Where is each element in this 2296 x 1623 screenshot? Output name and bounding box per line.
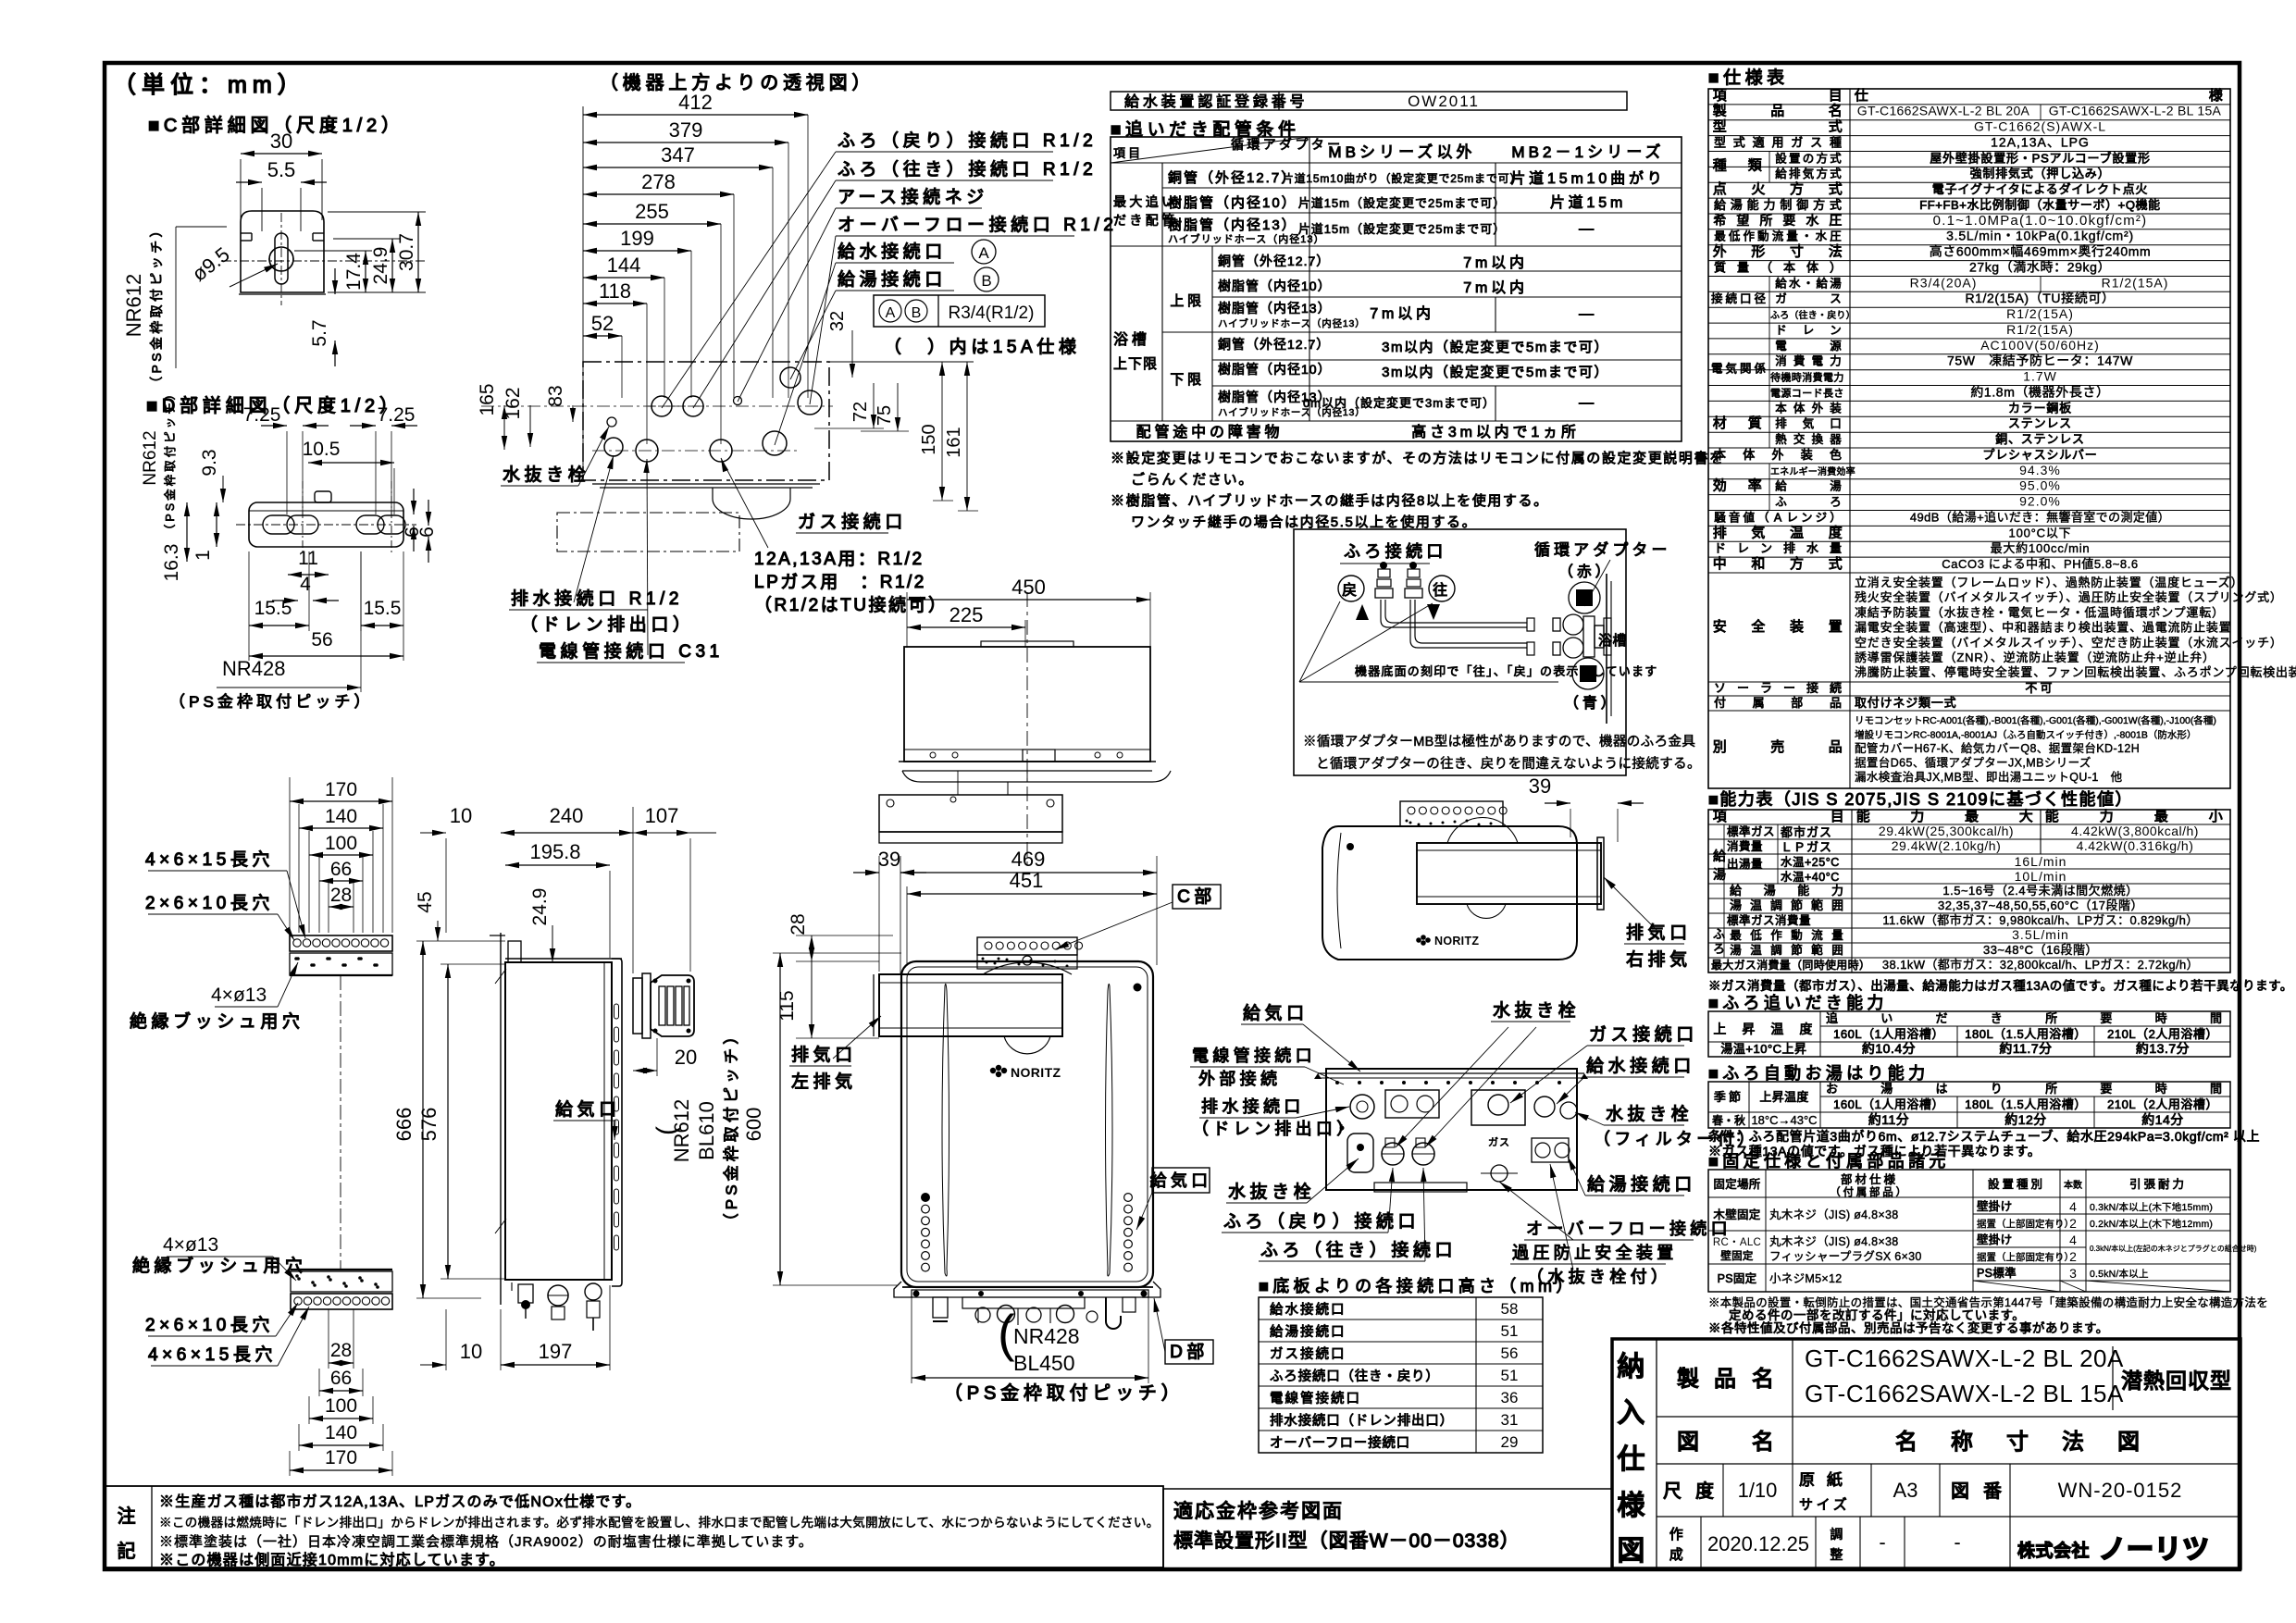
svg-text:機器底面の刻印で「往」、「戻」の表示をしています: 機器底面の刻印で「往」、「戻」の表示をしています [1355, 664, 1657, 678]
svg-text:形: 形 [1751, 244, 1769, 260]
front-top-view dims 450 225 [907, 576, 1150, 648]
centerline vertical [1026, 592, 1028, 865]
svg-text:売: 売 [1770, 739, 1788, 755]
circ-box bath label [1598, 633, 1627, 649]
svg-text:■仕様表: ■仕様表 [1708, 68, 1789, 88]
upper plate label 4xdia13 [130, 962, 304, 1032]
svg-text:7m以内: 7m以内 [1370, 305, 1434, 322]
svg-text:12A,13A、LPG: 12A,13A、LPG [1991, 135, 2090, 150]
svg-text:ふろ（戻り）接続口 R1/2: ふろ（戻り）接続口 R1/2 [838, 130, 1097, 151]
svg-text:ガス接続口: ガス接続口 [798, 512, 907, 532]
svg-text:量: 量 [1737, 261, 1752, 275]
svg-text:式: 式 [1829, 181, 1846, 197]
C-detail dim 17.4 [343, 251, 368, 292]
svg-text:107: 107 [645, 804, 679, 827]
svg-text:丸木ネジ（JIS) ø4.8×38: 丸木ネジ（JIS) ø4.8×38 [1769, 1235, 1899, 1248]
svg-text:接: 接 [1806, 681, 1821, 695]
svg-text:7m以内: 7m以内 [1463, 254, 1528, 271]
svg-text:電源コード長さ: 電源コード長さ [1770, 386, 1844, 399]
svg-text:湯: 湯 [1830, 277, 1844, 290]
svg-text:56: 56 [311, 629, 332, 650]
circ-box flow arrows [1356, 604, 1440, 620]
svg-text:付: 付 [1714, 696, 1729, 710]
svg-text:名: 名 [1752, 1367, 1780, 1392]
top-view conduit label [537, 459, 724, 663]
svg-text:排: 排 [1713, 525, 1731, 540]
svg-text:時: 時 [2155, 1082, 2170, 1096]
svg-text:給: 給 [1775, 480, 1790, 493]
svg-text:347: 347 [661, 143, 695, 167]
svg-text:部材仕様: 部材仕様 [1841, 1172, 1898, 1186]
svg-text:1/10: 1/10 [1738, 1479, 1778, 1502]
svg-text:水抜き栓: 水抜き栓 [503, 465, 590, 485]
svg-text:ふろ接続口: ふろ接続口 [1344, 542, 1447, 561]
svg-text:調: 調 [1770, 898, 1785, 912]
svg-text:型: 型 [1713, 119, 1731, 135]
reheat capability title [1708, 994, 1888, 1012]
front-view vent dots [922, 1194, 1133, 1271]
svg-text:小: 小 [2209, 809, 2227, 824]
svg-text:※この機器は側面近接10mmに対応しています。: ※この機器は側面近接10mmに対応しています。 [159, 1552, 505, 1568]
svg-text:18°C→43°C: 18°C→43°C [1751, 1113, 1817, 1127]
svg-text:設: 設 [1775, 151, 1790, 165]
svg-text:火: 火 [1751, 181, 1769, 197]
svg-text:置: 置 [1829, 619, 1846, 635]
svg-text:15.5: 15.5 [364, 598, 402, 619]
svg-text:※樹脂管、ハイブリッドホースの継手は内径8以上を使用する。: ※樹脂管、ハイブリッドホースの継手は内径8以上を使用する。 [1111, 492, 1549, 509]
svg-text:片道15m（設定変更で25mまで可）: 片道15m（設定変更で25mまで可） [1298, 196, 1507, 210]
svg-text:時: 時 [2155, 1011, 2170, 1025]
svg-text:樹脂管（内径10）: 樹脂管（内径10） [1168, 195, 1297, 211]
svg-text:樹脂管（内径10）: 樹脂管（内径10） [1218, 279, 1332, 293]
svg-text:給水接続口: 給水接続口 [1270, 1302, 1347, 1318]
svg-text:電子イグナイタによるダイレクト点火: 電子イグナイタによるダイレクト点火 [1932, 182, 2148, 196]
svg-text:力: 力 [1831, 884, 1846, 898]
svg-text:■底板よりの各接続口高さ（mm）: ■底板よりの各接続口高さ（mm） [1259, 1277, 1577, 1295]
svg-text:約11.7分: 約11.7分 [1999, 1041, 2052, 1056]
svg-text:52: 52 [591, 312, 614, 335]
svg-text:凍結予防装置（水抜き栓・電気ヒータ・低温時循環ポンプ運転）: 凍結予防装置（水抜き栓・電気ヒータ・低温時循環ポンプ運転） [1855, 605, 2225, 619]
svg-text:ス: ス [1810, 136, 1825, 150]
svg-text:2: 2 [2069, 1216, 2077, 1231]
side-view bottom fittings [505, 1280, 612, 1331]
D-detail dim 15.5 right [361, 598, 403, 628]
bottom-view fittings [1340, 1090, 1578, 1182]
svg-text:器: 器 [1830, 433, 1844, 446]
svg-text:方: 方 [1790, 181, 1807, 197]
svg-text:※この機器は燃焼時に「ドレン排出口」からドレンが排出されます: ※この機器は燃焼時に「ドレン排出口」からドレンが排出されます。必ず排水配管を設置… [159, 1515, 1160, 1530]
svg-text:量: 量 [1786, 230, 1801, 243]
svg-text:低: 低 [1729, 230, 1744, 243]
svg-text:体: 体 [1806, 261, 1821, 275]
svg-text:約1.8m（機器外長さ）: 約1.8m（機器外長さ） [1970, 384, 2109, 399]
reheating piping notes [1111, 451, 1725, 530]
svg-text:58: 58 [1501, 1300, 1519, 1318]
svg-text:2020.12.25: 2020.12.25 [1707, 1532, 1809, 1555]
top-view leader labels [662, 130, 1117, 445]
D-detail dim 4 [272, 574, 339, 603]
svg-text:増設リモコンRC-8001A,-8001AJ（ふろ自動スイッ: 増設リモコンRC-8001A,-8001AJ（ふろ自動スイッチ付き）,-8001… [1855, 729, 2196, 741]
connection height table title [1259, 1277, 1577, 1295]
svg-text:■ふろ追いだき能力: ■ふろ追いだき能力 [1708, 994, 1888, 1012]
svg-text:R1/2(15A): R1/2(15A) [2102, 275, 2169, 290]
svg-text:い: い [1880, 1011, 1895, 1025]
svg-text:10.5: 10.5 [303, 439, 341, 460]
upper mounting plate label 2x6x10 [145, 893, 294, 940]
D-detail title [146, 395, 403, 416]
svg-text:約13.7分: 約13.7分 [2136, 1041, 2190, 1056]
svg-text:温: 温 [1770, 1022, 1786, 1036]
svg-text:給水接続口: 給水接続口 [1586, 1056, 1695, 1076]
svg-text:（青）: （青） [1564, 695, 1620, 712]
circ-box pipes [1381, 600, 1560, 655]
svg-text:R1/2(15A): R1/2(15A) [2006, 306, 2074, 321]
svg-text:225: 225 [949, 603, 984, 626]
svg-text:上昇温度: 上昇温度 [1759, 1090, 1808, 1104]
spec table solar and accessory rows [1855, 681, 2055, 710]
svg-text:囲: 囲 [1831, 944, 1846, 957]
side-view dim 20 [633, 1038, 697, 1076]
svg-text:排: 排 [1775, 417, 1790, 430]
top-view gas labels [721, 458, 948, 615]
svg-text:能: 能 [1856, 809, 1874, 824]
svg-text:外: 外 [1812, 402, 1827, 415]
svg-text:ソ: ソ [1714, 681, 1729, 695]
bottom-view bottom labels [1259, 1164, 1731, 1286]
svg-text:ガ: ガ [1791, 136, 1806, 150]
svg-text:壁固定: 壁固定 [1720, 1249, 1754, 1262]
svg-text:低: 低 [1750, 929, 1765, 942]
svg-text:安: 安 [1713, 619, 1731, 635]
svg-text:）: ） [1830, 511, 1844, 524]
front-view exhaust duct [874, 962, 1072, 1054]
svg-text:30: 30 [270, 130, 292, 153]
svg-text:上: 上 [1713, 1022, 1729, 1036]
svg-text:全: 全 [1751, 618, 1769, 635]
svg-text:品: 品 [1770, 104, 1788, 119]
svg-text:（ドレン排出口）: （ドレン排出口） [1192, 1120, 1358, 1138]
svg-text:4×6×15長穴: 4×6×15長穴 [145, 849, 274, 870]
svg-text:7m以内: 7m以内 [1463, 279, 1528, 296]
svg-text:給気口: 給気口 [555, 1099, 621, 1120]
svg-text:式: 式 [1830, 198, 1844, 212]
front-view base and fittings [894, 1282, 1160, 1329]
svg-text:制: 制 [1780, 198, 1794, 212]
svg-text:3m以内（設定変更で5mまで可）: 3m以内（設定変更で5mまで可） [1382, 340, 1609, 355]
svg-text:湯: 湯 [1764, 884, 1779, 898]
svg-text:口: 口 [1830, 417, 1844, 430]
svg-text:GT-C1662SAWX-L-2 BL 20A: GT-C1662SAWX-L-2 BL 20A [1805, 1344, 2124, 1372]
D-detail dim 15.5 left [249, 598, 309, 628]
svg-text:力: 力 [1764, 198, 1779, 212]
svg-text:消費量: 消費量 [1727, 839, 1763, 853]
circulation adapter detail box [1294, 529, 1626, 775]
svg-text:銅、ステンレス: 銅、ステンレス [1995, 432, 2085, 446]
svg-text:15.5: 15.5 [254, 598, 292, 619]
svg-text:1.7W: 1.7W [2023, 369, 2057, 384]
svg-text:A: A [1774, 511, 1784, 524]
svg-text:FF+FB+水比例制御（水量サーボ）+Q機能: FF+FB+水比例制御（水量サーボ）+Q機能 [1919, 198, 2161, 212]
svg-text:約10.4分: 約10.4分 [1862, 1041, 1916, 1056]
svg-text:サイズ: サイズ [1799, 1497, 1850, 1513]
svg-text:3m以内（設定変更で5mまで可）: 3m以内（設定変更で5mまで可） [1382, 365, 1609, 380]
svg-text:ハイブリッドホース（内径13）: ハイブリッドホース（内径13） [1218, 317, 1365, 329]
svg-text:続: 続 [1830, 681, 1844, 695]
svg-text:29.4kW(2.10kg/h): 29.4kW(2.10kg/h) [1892, 838, 2002, 853]
circ-box modo icon [1572, 658, 1604, 689]
bottom-view body [1314, 1069, 1588, 1192]
svg-text:整: 整 [1830, 1547, 1845, 1562]
svg-text:製: 製 [1677, 1367, 1705, 1392]
svg-text:27kg（満水時：29kg）: 27kg（満水時：29kg） [1969, 260, 2111, 275]
svg-text:―: ― [1579, 395, 1597, 411]
svg-text:16.3: 16.3 [161, 544, 182, 582]
svg-text:給: 給 [1775, 167, 1790, 180]
svg-text:PS固定: PS固定 [1718, 1271, 1757, 1285]
side-view dims 10 240 107 [420, 804, 716, 973]
svg-text:気: 気 [1751, 525, 1769, 540]
svg-text:75: 75 [875, 405, 895, 426]
svg-text:循環アダプター: 循環アダプター [1231, 137, 1344, 152]
svg-text:片道15m10曲がり: 片道15m10曲がり [1510, 170, 1665, 187]
svg-text:方: 方 [1813, 198, 1828, 212]
svg-text:28: 28 [330, 1340, 352, 1361]
bottom-view right labels [1510, 1024, 1758, 1196]
circ-box yuki icon [1569, 582, 1600, 613]
top-view mizunuki label [501, 427, 609, 486]
svg-text:下限: 下限 [1170, 372, 1204, 388]
svg-text:要: 要 [1782, 213, 1798, 228]
svg-text:28: 28 [330, 885, 352, 906]
svg-text:ス: ス [1830, 292, 1844, 305]
svg-text:150: 150 [919, 424, 939, 454]
svg-text:だ: だ [1936, 1011, 1951, 1025]
svg-text:1: 1 [192, 550, 214, 561]
svg-text:4: 4 [2069, 1233, 2077, 1247]
svg-text:ー: ー [1783, 681, 1798, 695]
svg-text:R3/4(20A): R3/4(20A) [1910, 275, 1978, 290]
svg-text:所: 所 [1759, 213, 1775, 228]
svg-text:高さ600mm×幅469mm×奥行240mm: 高さ600mm×幅469mm×奥行240mm [1930, 244, 2152, 259]
svg-text:最: 最 [2154, 809, 2172, 824]
svg-text:水: 水 [1816, 230, 1831, 243]
lower plate label 2x6x10 [145, 1303, 298, 1336]
svg-text:装: 装 [1801, 448, 1816, 462]
C-detail dim 30.7 [396, 212, 421, 292]
svg-text:0.3kN/本以上(木下地15mm): 0.3kN/本以上(木下地15mm) [2090, 1201, 2213, 1213]
svg-text:給湯接続口: 給湯接続口 [1270, 1324, 1347, 1340]
svg-text:壁掛け: 壁掛け [1977, 1233, 2012, 1246]
svg-text:ガス: ガス [1488, 1136, 1510, 1148]
svg-text:力: 力 [1910, 809, 1928, 824]
svg-text:力: 力 [1830, 355, 1844, 368]
perspective-view top bracket [1400, 801, 1507, 826]
svg-text:要: 要 [2100, 1011, 2115, 1025]
svg-text:湯: 湯 [1880, 1082, 1895, 1096]
svg-text:ン: ン [1760, 541, 1775, 555]
svg-text:NR612: NR612 [141, 430, 160, 485]
svg-text:成: 成 [1669, 1547, 1687, 1563]
svg-text:寸: 寸 [1790, 244, 1807, 260]
svg-text:11.6kW（都市ガス：9,980kcal/h、LPガス：0: 11.6kW（都市ガス：9,980kcal/h、LPガス：0.829kg/h） [1882, 913, 2198, 927]
svg-text:（PS金枠取付ピッチ）: （PS金枠取付ピッチ） [163, 386, 177, 536]
auto fill notes [1708, 1129, 2260, 1158]
svg-text:排気口: 排気口 [791, 1045, 857, 1065]
svg-text:7.25: 7.25 [378, 404, 416, 426]
svg-text:式: 式 [1830, 167, 1844, 180]
svg-text:小ネジM5×12: 小ネジM5×12 [1769, 1272, 1842, 1285]
svg-text:5.7: 5.7 [309, 319, 330, 346]
svg-text:浴槽: 浴槽 [1598, 633, 1627, 649]
svg-text:GT-C1662SAWX-L-2 BL 15A: GT-C1662SAWX-L-2 BL 15A [2049, 104, 2222, 118]
svg-text:ふ: ふ [1775, 496, 1790, 509]
svg-text:0m以内（設定変更で3mまで可）: 0m以内（設定変更で3mまで可） [1303, 396, 1496, 410]
svg-text:A3: A3 [1893, 1479, 1918, 1502]
svg-text:騒: 騒 [1714, 511, 1729, 524]
svg-text:外: 外 [1713, 244, 1731, 260]
svg-text:170: 170 [325, 1447, 357, 1468]
svg-text:92.0%: 92.0% [2019, 494, 2061, 509]
svg-text:※ガス消費量（都市ガス）、出湯量、給湯能力はガス種13Aの値: ※ガス消費量（都市ガス）、出湯量、給湯能力はガス種13Aの値です。ガス種により若… [1708, 978, 2293, 993]
svg-text:ド: ド [1714, 541, 1729, 555]
svg-text:度: 度 [1695, 1481, 1719, 1502]
svg-text:0.3kN/本以上(左記の木ネジとプラグとの組合せ時): 0.3kN/本以上(左記の木ネジとプラグとの組合せ時) [2090, 1244, 2257, 1253]
svg-text:法: 法 [2062, 1430, 2090, 1455]
svg-text:置: 置 [1789, 152, 1804, 165]
svg-text:GT-C1662(S)AWX-L: GT-C1662(S)AWX-L [1974, 119, 2106, 134]
svg-text:379: 379 [669, 118, 703, 142]
svg-text:原: 原 [1799, 1471, 1818, 1489]
svg-text:き: き [1991, 1011, 2005, 1025]
svg-text:不可: 不可 [2025, 681, 2054, 695]
svg-text:給: 給 [1714, 198, 1729, 212]
svg-text:ふろ（往き）接続口 R1/2: ふろ（往き）接続口 R1/2 [838, 159, 1097, 180]
svg-text:度: 度 [1799, 1022, 1815, 1036]
svg-text:過圧防止安全装置: 過圧防止安全装置 [1512, 1244, 1678, 1262]
svg-text:給: 給 [1816, 277, 1831, 290]
svg-text:NORITZ: NORITZ [1434, 935, 1479, 948]
svg-text:100°C以下: 100°C以下 [2009, 526, 2072, 539]
svg-text:部: 部 [1791, 696, 1806, 710]
D-detail dim 10.5 [303, 439, 394, 514]
svg-text:株式会社: 株式会社 [2017, 1540, 2090, 1561]
svg-text:品: 品 [1714, 1367, 1742, 1392]
svg-text:ふ: ふ [1713, 927, 1728, 941]
svg-text:2×6×10長穴: 2×6×10長穴 [145, 1315, 274, 1335]
capability table title [1708, 790, 2133, 809]
reheating piping table grid [1111, 137, 1682, 441]
svg-text:エネルギー消費効率: エネルギー消費効率 [1770, 465, 1855, 477]
svg-text:水温+40°C: 水温+40°C [1781, 871, 1840, 884]
title block frame [1612, 1339, 2240, 1568]
upper mounting plate dims 170-28 [290, 777, 392, 933]
svg-text:75W 凍結予防ヒータ：147W: 75W 凍結予防ヒータ：147W [1947, 353, 2133, 368]
svg-text:能: 能 [1747, 198, 1762, 212]
D-detail dim 11 [288, 548, 329, 577]
svg-text:銅管（外径12.7）: 銅管（外径12.7） [1168, 170, 1297, 186]
svg-text:10: 10 [450, 804, 472, 827]
svg-text:電線管接続口: 電線管接続口 [1270, 1391, 1361, 1406]
D-detail dim 7.25 right [350, 404, 417, 514]
svg-text:条件：ふろ配管片道3曲がり6m、ø12.7システムチューブ、: 条件：ふろ配管片道3曲がり6m、ø12.7システムチューブ、給水圧294kPa=… [1708, 1129, 2260, 1144]
svg-text:約14分: 約14分 [2141, 1112, 2184, 1127]
svg-text:約11分: 約11分 [1868, 1112, 1910, 1127]
svg-text:LPガス用 ：R1/2: LPガス用 ：R1/2 [754, 572, 926, 592]
svg-text:外部接続: 外部接続 [1198, 1070, 1281, 1088]
svg-text:和: 和 [1751, 556, 1769, 572]
spec table label column [1711, 88, 1855, 755]
svg-text:能: 能 [1797, 884, 1812, 898]
svg-text:標準ガス消費量: 標準ガス消費量 [1727, 913, 1811, 927]
svg-text:電: 電 [1812, 355, 1827, 368]
D-detail bracket plate [236, 481, 416, 555]
svg-text:118: 118 [599, 279, 631, 303]
connection height table [1259, 1297, 1543, 1453]
D-detail dim 1 [192, 502, 219, 561]
svg-text:NR428: NR428 [222, 657, 285, 680]
svg-text:180L（1.5人用浴槽）: 180L（1.5人用浴槽） [1965, 1027, 2087, 1041]
svg-text:適応金枠参考図面: 適応金枠参考図面 [1173, 1501, 1344, 1522]
circ-box yuki circle [1429, 576, 1455, 601]
svg-text:140: 140 [325, 1422, 357, 1443]
svg-text:180L（1.5人用浴槽）: 180L（1.5人用浴槽） [1965, 1097, 2087, 1111]
upper mounting plate label 4x6x15 [145, 849, 305, 938]
svg-text:御: 御 [1796, 198, 1811, 212]
reheating piping table rows group1 [1113, 170, 1666, 245]
svg-text:（機器上方よりの透視図）: （機器上方よりの透視図） [600, 72, 875, 93]
svg-text:出湯量: 出湯量 [1727, 858, 1763, 871]
svg-text:プレシャスシルバー: プレシャスシルバー [1982, 448, 2097, 462]
auto fill capability table [1708, 1082, 2230, 1128]
svg-text:種: 種 [1830, 136, 1844, 150]
svg-text:最大約100cc/min: 最大約100cc/min [1991, 541, 2091, 555]
svg-text:待機時消費電力: 待機時消費電力 [1770, 371, 1844, 384]
svg-text:強制排気式（押し込み）: 強制排気式（押し込み） [1970, 167, 2111, 180]
svg-text:樹脂管（内径13）: 樹脂管（内径13） [1218, 301, 1332, 316]
svg-text:調: 調 [1830, 1527, 1845, 1542]
svg-text:（PS金枠取付ピッチ）: （PS金枠取付ピッチ） [169, 693, 374, 711]
svg-text:据置台D65、循環アダプターJX,MBシリーズ: 据置台D65、循環アダプターJX,MBシリーズ [1855, 756, 2091, 770]
lower mounting plate [291, 1270, 392, 1309]
svg-text:本数: 本数 [2064, 1179, 2082, 1191]
svg-text:4×ø13: 4×ø13 [163, 1234, 218, 1256]
D-detail dim 6 6 [402, 489, 438, 563]
svg-text:費: 費 [1793, 354, 1808, 368]
svg-text:交: 交 [1793, 432, 1808, 446]
svg-text:式: 式 [1830, 152, 1844, 165]
svg-text:範: 範 [1811, 898, 1826, 912]
perspective-view exhaust labels [1604, 877, 1692, 970]
svg-text:WN-20-0152: WN-20-0152 [2058, 1479, 2183, 1502]
svg-text:フィッシャープラグSX 6×30: フィッシャープラグSX 6×30 [1769, 1250, 1922, 1263]
notes box [105, 1486, 1163, 1567]
svg-text:ン: ン [1830, 324, 1844, 337]
svg-text:片道15m: 片道15m [1550, 194, 1626, 211]
svg-text:接続口径: 接続口径 [1711, 291, 1769, 305]
svg-text:気: 気 [1803, 167, 1818, 180]
front-view dim 28 115 600 [742, 913, 901, 1285]
svg-text:160L（1人用浴槽）: 160L（1人用浴槽） [1833, 1097, 1944, 1111]
svg-text:方: 方 [1816, 167, 1831, 180]
svg-text:NR612: NR612 [122, 274, 145, 337]
svg-text:消: 消 [1775, 355, 1790, 368]
svg-text:往: 往 [1580, 593, 1589, 605]
svg-text:給: 給 [1730, 884, 1744, 898]
svg-text:紙: 紙 [1827, 1471, 1846, 1489]
D-detail dim 16.3 [161, 502, 190, 581]
svg-text:ふろ（往き・戻り）: ふろ（往き・戻り） [1770, 309, 1855, 321]
svg-text:24.9: 24.9 [529, 888, 551, 926]
